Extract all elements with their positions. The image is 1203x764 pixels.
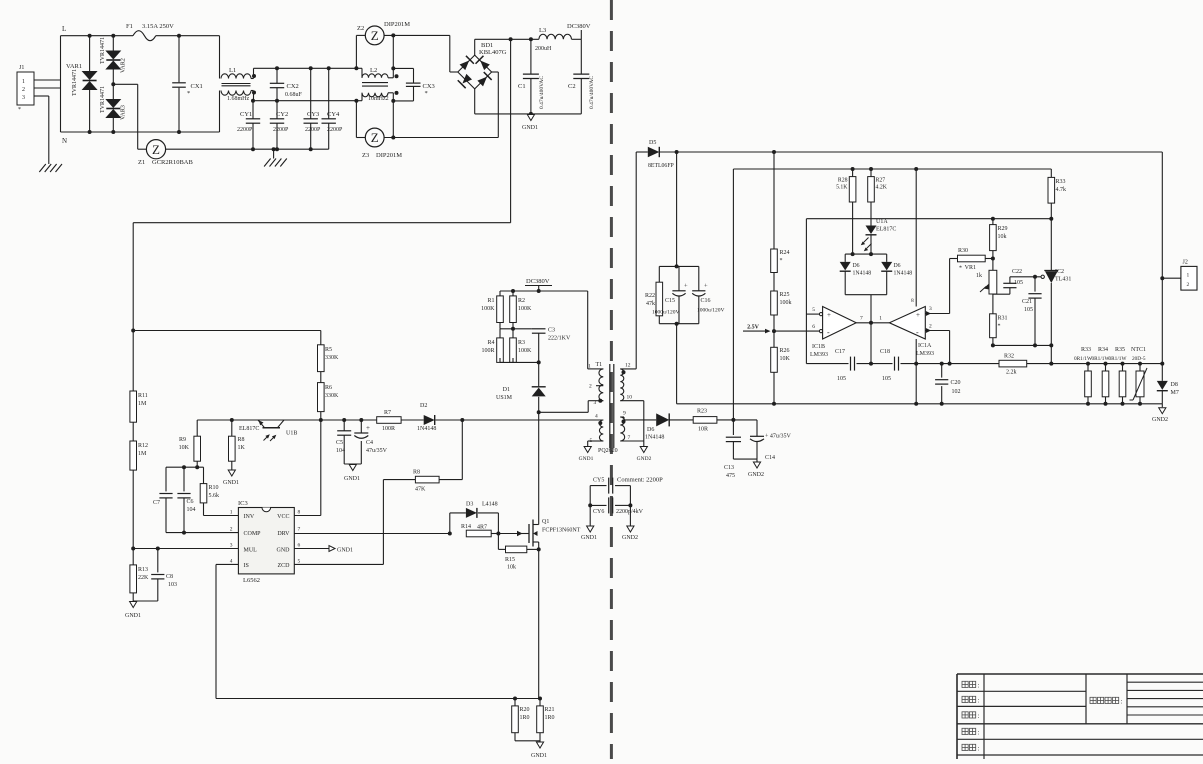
svg-text:10: 10 — [627, 395, 633, 401]
svg-text:L6562: L6562 — [243, 577, 260, 584]
svg-text:D6: D6 — [853, 263, 860, 269]
svg-text:2200P: 2200P — [305, 127, 321, 133]
svg-text:1k: 1k — [976, 273, 982, 279]
svg-text:DC380V: DC380V — [567, 23, 591, 30]
svg-text:100K: 100K — [481, 306, 495, 312]
svg-text:GND: GND — [277, 547, 291, 553]
svg-text::: : — [978, 745, 980, 753]
svg-text:*: * — [780, 258, 783, 264]
svg-text:6: 6 — [298, 543, 301, 549]
svg-text:5: 5 — [812, 307, 815, 313]
svg-text:7: 7 — [860, 316, 863, 322]
svg-text:R3: R3 — [518, 340, 525, 346]
svg-text:100R: 100R — [481, 348, 494, 354]
svg-text:100k: 100k — [780, 300, 792, 306]
svg-text:1M: 1M — [138, 401, 147, 407]
svg-text:R12: R12 — [138, 443, 148, 449]
svg-text:FCPF13N60NT: FCPF13N60NT — [542, 528, 581, 534]
svg-text:4: 4 — [595, 414, 598, 420]
svg-text:1: 1 — [588, 364, 591, 370]
svg-text:GND1: GND1 — [581, 535, 597, 541]
svg-text:C8: C8 — [166, 574, 173, 580]
svg-text:2200P: 2200P — [273, 127, 289, 133]
svg-text:R15: R15 — [505, 557, 515, 563]
svg-text:0.47u/400VAC: 0.47u/400VAC — [589, 76, 595, 109]
svg-text:7: 7 — [628, 435, 631, 441]
svg-text:DIP201M: DIP201M — [376, 152, 402, 159]
svg-text:T1: T1 — [596, 362, 603, 368]
svg-text:R34: R34 — [1098, 347, 1108, 353]
svg-text:R35: R35 — [1115, 347, 1125, 353]
svg-text:Z: Z — [371, 28, 379, 43]
svg-text:R23: R23 — [697, 409, 707, 415]
svg-text:VCC: VCC — [277, 514, 289, 520]
svg-text:*: * — [998, 324, 1001, 330]
svg-text:10K: 10K — [780, 356, 791, 362]
svg-text:D1: D1 — [503, 387, 510, 393]
svg-text:IC2: IC2 — [1055, 269, 1064, 275]
svg-text:C18: C18 — [880, 349, 890, 355]
svg-text:GND2: GND2 — [1152, 417, 1168, 423]
svg-text:6: 6 — [812, 324, 815, 330]
svg-text:LM393: LM393 — [810, 352, 828, 358]
svg-text:200uH: 200uH — [535, 46, 552, 52]
svg-text:CY6: CY6 — [593, 509, 604, 515]
svg-text:INV: INV — [244, 514, 255, 520]
svg-text:R11: R11 — [138, 393, 148, 399]
svg-text:IC1A: IC1A — [918, 343, 932, 349]
svg-text:47u/35V: 47u/35V — [366, 448, 388, 454]
svg-text:Z1: Z1 — [138, 159, 145, 166]
svg-text:GCR2R10BAB: GCR2R10BAB — [152, 159, 193, 166]
svg-text:IC3: IC3 — [238, 500, 248, 507]
svg-text:1R0: 1R0 — [545, 715, 555, 721]
svg-text:C7: C7 — [153, 500, 160, 506]
svg-text:CY2: CY2 — [276, 111, 288, 118]
svg-text:TL431: TL431 — [1055, 277, 1071, 283]
svg-text:475: 475 — [726, 473, 735, 479]
svg-text:1R0: 1R0 — [520, 715, 530, 721]
svg-text:47k: 47k — [646, 301, 655, 307]
svg-text:GND1: GND1 — [344, 476, 360, 482]
svg-text:105: 105 — [1014, 280, 1023, 286]
svg-text:R7: R7 — [384, 410, 391, 416]
svg-text:Z: Z — [152, 142, 160, 157]
svg-text:9: 9 — [623, 411, 626, 417]
svg-text:GND1: GND1 — [125, 613, 141, 619]
svg-text:L: L — [62, 25, 66, 33]
svg-text:R33: R33 — [1056, 179, 1066, 185]
svg-text:BD1: BD1 — [481, 42, 493, 49]
svg-text:+: + — [366, 424, 370, 432]
svg-text:R30: R30 — [958, 248, 968, 254]
svg-text:D2: D2 — [420, 403, 427, 409]
svg-text:5.6k: 5.6k — [209, 493, 220, 499]
svg-text:LM393: LM393 — [916, 351, 934, 357]
svg-text:+: + — [684, 283, 688, 290]
svg-text:1K: 1K — [238, 445, 246, 451]
svg-text:1N4148: 1N4148 — [853, 271, 872, 277]
svg-text:0.68uF: 0.68uF — [285, 92, 303, 98]
svg-text:D6: D6 — [894, 263, 901, 269]
svg-text:R24: R24 — [780, 250, 790, 256]
svg-text:TVR14471: TVR14471 — [72, 69, 78, 96]
svg-text:*: * — [425, 90, 428, 97]
svg-text:EL817C: EL817C — [239, 426, 259, 432]
svg-text:10mHz2: 10mHz2 — [368, 96, 389, 102]
svg-text:MUL: MUL — [244, 547, 258, 553]
svg-text:Q1: Q1 — [542, 519, 549, 525]
svg-text:3: 3 — [22, 95, 25, 101]
svg-text:+ 47u/35V: + 47u/35V — [765, 434, 792, 440]
svg-text:-: - — [827, 328, 830, 337]
svg-text:100R: 100R — [382, 426, 395, 432]
svg-text:R4: R4 — [487, 340, 494, 346]
svg-text:R6: R6 — [325, 385, 332, 391]
svg-text:R27: R27 — [876, 178, 886, 184]
svg-text:2: 2 — [22, 87, 25, 93]
svg-text:2200p/4kV: 2200p/4kV — [616, 509, 644, 515]
svg-text:VAR2: VAR2 — [121, 58, 127, 73]
svg-text:C16: C16 — [701, 298, 711, 304]
svg-text:22K: 22K — [138, 575, 149, 581]
svg-text:CX2: CX2 — [287, 83, 299, 90]
svg-text:3.15A 250V: 3.15A 250V — [142, 23, 174, 30]
svg-text:U1A: U1A — [876, 219, 888, 225]
svg-text:R26: R26 — [780, 348, 790, 354]
svg-text:R1: R1 — [487, 298, 494, 304]
svg-text:R9: R9 — [179, 437, 186, 443]
svg-text:47K: 47K — [415, 487, 426, 493]
svg-text:C3: C3 — [548, 328, 555, 334]
svg-text:ZCD: ZCD — [278, 563, 291, 569]
svg-text:*: * — [959, 266, 962, 272]
svg-text:VAR1: VAR1 — [66, 63, 82, 70]
svg-text:1000u/120V: 1000u/120V — [652, 310, 680, 316]
svg-text:2: 2 — [929, 324, 932, 330]
svg-text:R28: R28 — [838, 178, 848, 184]
svg-text:1: 1 — [1187, 273, 1190, 279]
svg-text:3: 3 — [230, 543, 233, 549]
svg-text:330K: 330K — [325, 355, 339, 361]
svg-text:+: + — [827, 311, 831, 319]
svg-text:M7: M7 — [1171, 390, 1179, 396]
svg-text:L4148: L4148 — [482, 502, 498, 508]
svg-text:R14: R14 — [461, 524, 471, 530]
svg-text:C17: C17 — [835, 349, 845, 355]
svg-text:1: 1 — [879, 316, 882, 322]
svg-text:D5: D5 — [649, 140, 656, 146]
svg-text:J1: J1 — [19, 65, 24, 71]
svg-text:2200P: 2200P — [327, 127, 343, 133]
svg-text:5: 5 — [298, 559, 301, 565]
svg-text:-: - — [916, 328, 919, 337]
svg-text:*: * — [187, 90, 190, 97]
svg-text::: : — [978, 682, 980, 690]
svg-text::: : — [1121, 698, 1123, 706]
svg-text:0R1/1W: 0R1/1W — [1092, 356, 1110, 362]
svg-text:10K: 10K — [179, 445, 190, 451]
svg-text:R2: R2 — [518, 298, 525, 304]
svg-text:105: 105 — [1024, 307, 1033, 313]
svg-text:CY3: CY3 — [307, 111, 319, 118]
svg-text:R21: R21 — [545, 707, 555, 713]
svg-text:R29: R29 — [998, 226, 1008, 232]
svg-text:R22: R22 — [645, 293, 655, 299]
svg-text:4.7k: 4.7k — [1056, 187, 1067, 193]
svg-text:C6: C6 — [187, 499, 194, 505]
svg-text:GND2: GND2 — [622, 535, 638, 541]
svg-text:4R7: 4R7 — [477, 525, 487, 531]
svg-text:1: 1 — [230, 510, 233, 516]
svg-text:DRV: DRV — [277, 531, 290, 537]
svg-text:C4: C4 — [366, 440, 373, 446]
svg-text:CY1: CY1 — [240, 111, 252, 118]
svg-text:Z: Z — [371, 130, 379, 145]
svg-text:1N4148: 1N4148 — [645, 435, 664, 441]
svg-text:Z3: Z3 — [362, 152, 369, 159]
svg-text:C14: C14 — [765, 455, 775, 461]
svg-text:8ETL06FP: 8ETL06FP — [648, 163, 674, 169]
svg-text:CY5: CY5 — [593, 478, 604, 484]
svg-text:R32: R32 — [1004, 354, 1014, 360]
svg-text:GND2: GND2 — [748, 472, 764, 478]
svg-text:102: 102 — [952, 389, 961, 395]
svg-text:GND1: GND1 — [522, 125, 538, 131]
svg-text:330K: 330K — [325, 393, 339, 399]
svg-text:N: N — [62, 137, 67, 145]
svg-text:CY4: CY4 — [327, 111, 340, 118]
svg-text:2: 2 — [589, 384, 592, 390]
svg-text:2.2k: 2.2k — [1006, 370, 1017, 376]
svg-text:R8: R8 — [238, 437, 245, 443]
svg-text:2200P: 2200P — [237, 127, 253, 133]
svg-text:R20: R20 — [520, 707, 530, 713]
svg-text:1N4148: 1N4148 — [894, 271, 913, 277]
svg-text:DC380V: DC380V — [526, 278, 550, 285]
svg-text:D8: D8 — [1171, 382, 1178, 388]
svg-text:D3: D3 — [466, 502, 473, 508]
svg-text:2.5V: 2.5V — [747, 325, 760, 331]
svg-text:8: 8 — [911, 298, 914, 304]
svg-text:IC1B: IC1B — [812, 344, 825, 350]
svg-text:C20: C20 — [951, 380, 961, 386]
svg-text:105: 105 — [837, 376, 846, 382]
svg-text:PQ2620: PQ2620 — [598, 448, 618, 454]
svg-text:C5: C5 — [336, 440, 343, 446]
svg-text:C13: C13 — [724, 465, 734, 471]
svg-text:DIP201M: DIP201M — [384, 21, 410, 28]
svg-text:0R1/1W: 0R1/1W — [1109, 356, 1127, 362]
svg-text:GND1: GND1 — [579, 456, 594, 462]
svg-text:103: 103 — [168, 582, 177, 588]
svg-text:7: 7 — [298, 527, 301, 533]
svg-text:5.1K: 5.1K — [836, 185, 848, 191]
svg-text:IS: IS — [244, 563, 249, 569]
svg-text:1.68mHz: 1.68mHz — [227, 96, 250, 102]
svg-text:222/1KV: 222/1KV — [548, 336, 571, 342]
svg-text:EL817C: EL817C — [876, 227, 896, 233]
svg-text:3: 3 — [594, 400, 597, 406]
svg-text:+: + — [916, 311, 920, 319]
svg-text:20D-5: 20D-5 — [1132, 356, 1146, 362]
svg-text:TVR14471: TVR14471 — [100, 37, 106, 64]
svg-text:TVR14471: TVR14471 — [100, 86, 106, 113]
svg-text:NTC1: NTC1 — [1131, 347, 1146, 353]
svg-text:VAR3: VAR3 — [121, 105, 127, 120]
svg-text:GND2: GND2 — [637, 456, 652, 462]
svg-text:10k: 10k — [507, 565, 516, 571]
svg-text:L3: L3 — [539, 27, 546, 34]
svg-text:*: * — [18, 107, 21, 113]
svg-text:U1B: U1B — [286, 431, 297, 437]
svg-text:J2: J2 — [1183, 260, 1188, 266]
svg-text:+: + — [704, 283, 708, 290]
svg-text:Comment: 2200P: Comment: 2200P — [617, 477, 663, 484]
svg-text::: : — [978, 697, 980, 705]
svg-text:US1M: US1M — [496, 395, 513, 401]
svg-text:2: 2 — [1187, 282, 1190, 288]
svg-text:GND1: GND1 — [337, 547, 353, 553]
svg-text:0.47u/400VAC: 0.47u/400VAC — [539, 76, 545, 109]
svg-text::: : — [978, 712, 980, 720]
svg-text:C15: C15 — [665, 298, 675, 304]
svg-text:Z2: Z2 — [357, 25, 364, 32]
svg-text:C22: C22 — [1012, 269, 1022, 275]
svg-text:KBL407G: KBL407G — [479, 49, 507, 56]
svg-text:3: 3 — [929, 306, 932, 312]
svg-text::: : — [978, 729, 980, 737]
svg-text:104: 104 — [187, 507, 196, 513]
svg-text:L2: L2 — [370, 67, 377, 74]
svg-text:VR1: VR1 — [965, 265, 976, 271]
svg-text:C2: C2 — [568, 83, 576, 90]
svg-text:1000u/120V: 1000u/120V — [697, 308, 725, 314]
svg-text:C1: C1 — [518, 83, 526, 90]
svg-text:100K: 100K — [518, 348, 532, 354]
svg-text:GND1: GND1 — [223, 480, 239, 486]
svg-text:100K: 100K — [518, 306, 532, 312]
svg-text:CX3: CX3 — [423, 83, 435, 90]
svg-text:0R1/1W: 0R1/1W — [1074, 356, 1092, 362]
svg-text:GND1: GND1 — [531, 753, 547, 759]
svg-text:4.2K: 4.2K — [876, 185, 888, 191]
svg-text:R25: R25 — [780, 292, 790, 298]
svg-text:COMP: COMP — [244, 531, 262, 537]
svg-text:D6: D6 — [647, 427, 654, 433]
svg-text:10k: 10k — [998, 234, 1007, 240]
svg-text:1: 1 — [22, 79, 25, 85]
svg-text:R8: R8 — [413, 470, 420, 476]
svg-text:10R: 10R — [698, 427, 708, 433]
svg-text:R31: R31 — [998, 316, 1008, 322]
svg-text:R13: R13 — [138, 567, 148, 573]
svg-text:F1: F1 — [126, 23, 133, 30]
svg-text:12: 12 — [625, 363, 631, 369]
svg-text:105: 105 — [882, 376, 891, 382]
svg-text:4: 4 — [230, 559, 233, 565]
svg-text:R33: R33 — [1081, 347, 1091, 353]
svg-text:C21: C21 — [1022, 299, 1032, 305]
svg-text:104: 104 — [336, 448, 345, 454]
svg-text:L1: L1 — [229, 67, 236, 74]
svg-text:2: 2 — [230, 527, 233, 533]
svg-text:R10: R10 — [209, 485, 219, 491]
svg-text:8: 8 — [298, 510, 301, 516]
svg-text:CX1: CX1 — [191, 83, 203, 90]
svg-text:1N4148: 1N4148 — [417, 426, 436, 432]
svg-text:R5: R5 — [325, 347, 332, 353]
svg-text:1M: 1M — [138, 451, 147, 457]
